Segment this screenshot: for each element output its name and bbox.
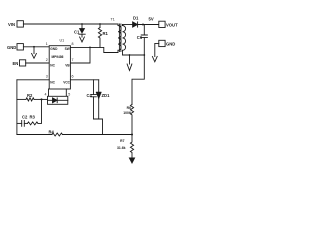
svg-text:3: 3 bbox=[46, 75, 48, 79]
wire pin5 stub bbox=[65, 89, 67, 96]
terminal VIN bbox=[17, 21, 23, 27]
svg-text:2: 2 bbox=[46, 58, 48, 62]
wire GND input to IC pin1 bbox=[23, 46, 49, 48]
wire pin7 loop bbox=[70, 47, 90, 63]
svg-text:R2: R2 bbox=[27, 93, 33, 98]
terminal VOUT bbox=[159, 21, 165, 27]
svg-text:100K: 100K bbox=[123, 111, 132, 115]
diode D2 (opto box below IC) bbox=[48, 96, 68, 104]
svg-text:6: 6 bbox=[72, 75, 74, 79]
svg-text:GND: GND bbox=[166, 41, 175, 46]
svg-text:C2: C2 bbox=[22, 115, 28, 120]
svg-text:NC: NC bbox=[50, 64, 55, 68]
svg-text:VOUT: VOUT bbox=[166, 22, 178, 27]
wire pin4 stub bbox=[48, 89, 50, 96]
resistor R2 bbox=[17, 98, 48, 101]
wire C4 ZD1 return bbox=[94, 119, 103, 135]
svg-text:D1: D1 bbox=[133, 16, 139, 21]
svg-text:7: 7 bbox=[72, 58, 74, 62]
capacitor C1 bbox=[79, 24, 85, 37]
zener ZD1 bbox=[96, 80, 101, 119]
resistor R6 bbox=[130, 104, 133, 134]
wire pin8 SW bbox=[70, 47, 118, 52]
node FB junction bbox=[131, 134, 133, 136]
diode D1 bbox=[133, 22, 159, 27]
svg-text:R4: R4 bbox=[49, 130, 55, 135]
ground (secondary) bbox=[127, 55, 132, 71]
svg-text:NC: NC bbox=[50, 80, 55, 84]
wire EN to IC pin2 bbox=[26, 62, 50, 64]
svg-text:R7: R7 bbox=[120, 139, 124, 143]
wire bottom rail bbox=[17, 134, 52, 136]
capacitor C2 bbox=[17, 121, 28, 127]
svg-text:GND: GND bbox=[7, 45, 16, 50]
capacitor C4 bbox=[91, 80, 97, 119]
wire output GND bbox=[155, 43, 159, 56]
capacitor C6 bbox=[141, 25, 147, 56]
svg-text:SW: SW bbox=[65, 47, 70, 51]
wire pin6 VCC bbox=[70, 79, 98, 81]
terminal GND (output) bbox=[159, 40, 165, 46]
wire comp rail bbox=[16, 80, 18, 135]
wire VIN rail bbox=[23, 23, 118, 25]
terminal GND (input) bbox=[17, 44, 23, 50]
wire secondary top to D1 bbox=[123, 24, 133, 26]
svg-text:C1: C1 bbox=[74, 30, 80, 35]
svg-text:C6: C6 bbox=[137, 35, 143, 40]
svg-text:MP9486: MP9486 bbox=[52, 55, 64, 59]
op-amp U1 (IC MP9486 box) bbox=[49, 46, 70, 89]
svg-text:VIN: VIN bbox=[8, 22, 15, 27]
svg-text:R1: R1 bbox=[103, 31, 109, 36]
transformer T1 bbox=[118, 24, 126, 55]
svg-text:VCC: VCC bbox=[63, 80, 70, 84]
resistor R3 bbox=[28, 99, 42, 125]
ground (C1) bbox=[80, 37, 85, 42]
resistor R4 bbox=[52, 133, 62, 136]
svg-text:1: 1 bbox=[46, 42, 48, 46]
ground (output GND) bbox=[152, 57, 157, 62]
terminal EN bbox=[20, 60, 26, 66]
resistor R1 bbox=[98, 24, 101, 47]
resistor R7 bbox=[130, 135, 133, 159]
node junctions bbox=[33, 23, 145, 100]
svg-text:31.6k: 31.6k bbox=[117, 146, 126, 150]
svg-text:U1: U1 bbox=[60, 39, 65, 43]
svg-text:R6: R6 bbox=[127, 106, 131, 110]
ground (input GND) bbox=[32, 47, 37, 59]
svg-text:8: 8 bbox=[72, 42, 74, 46]
svg-text:4: 4 bbox=[45, 92, 47, 96]
svg-text:R3: R3 bbox=[30, 115, 36, 120]
node 5V junction bbox=[142, 24, 144, 26]
wire divider feed bbox=[132, 55, 144, 104]
node comp junction bbox=[41, 98, 43, 100]
svg-text:EN: EN bbox=[13, 61, 19, 66]
svg-text:C4: C4 bbox=[87, 93, 93, 98]
svg-text:5: 5 bbox=[68, 92, 70, 96]
svg-text:GND: GND bbox=[50, 47, 58, 51]
wire pin3 to comp rail bbox=[17, 79, 49, 81]
wire secondary return bbox=[123, 54, 145, 56]
svg-text:T1: T1 bbox=[111, 18, 115, 22]
svg-text:ZD1: ZD1 bbox=[102, 93, 111, 98]
svg-text:5V: 5V bbox=[149, 16, 154, 21]
svg-text:VB: VB bbox=[65, 64, 70, 68]
ground (R7) bbox=[129, 158, 134, 163]
